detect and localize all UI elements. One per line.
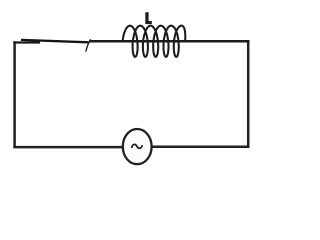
wire bottom left segment [13,146,123,149]
wire right vertical [247,40,250,147]
label L [145,12,152,24]
wire left vertical [13,41,16,147]
wire top through inductor [89,40,250,43]
AC source circle [123,129,152,164]
switch tick slash on top wire [86,39,91,52]
wire top left segment B [21,40,89,42]
wire top left segment A [13,41,40,43]
AC source tilde [132,144,143,148]
wire bottom right segment [152,146,250,149]
inductor L coil [123,26,186,57]
